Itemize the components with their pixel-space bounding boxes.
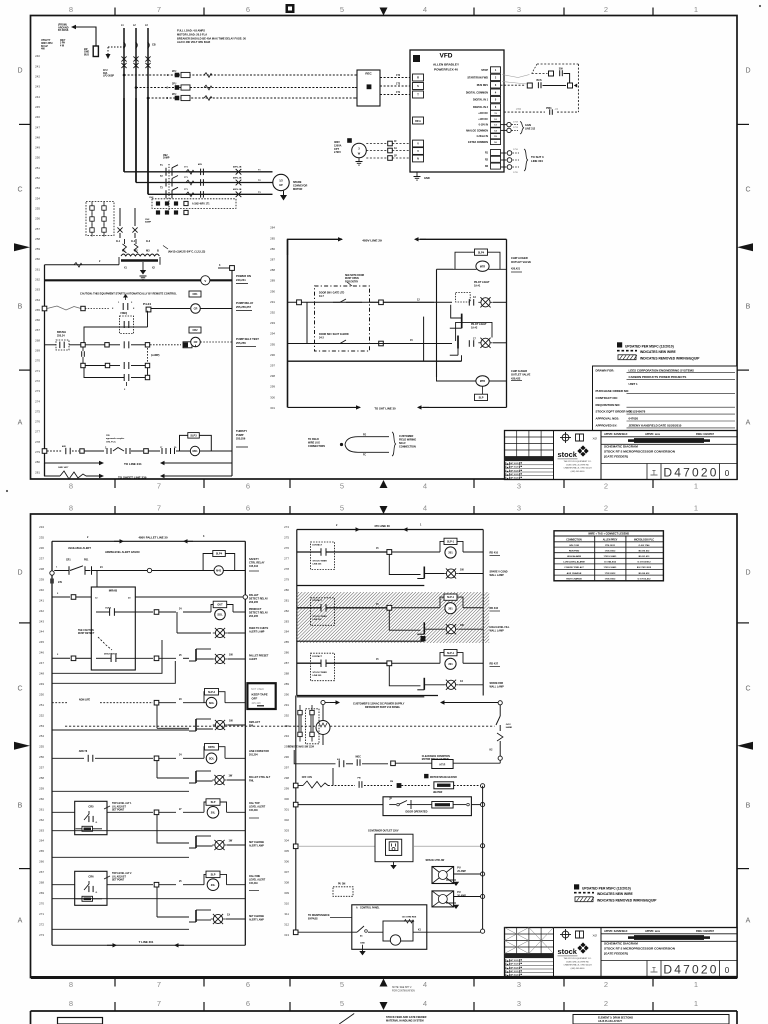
p2 rail node bbox=[50, 571, 54, 575]
svg-text:284: 284 bbox=[270, 226, 275, 230]
svg-text:D: D bbox=[17, 570, 22, 577]
svg-text:269: 269 bbox=[39, 891, 44, 895]
svg-text:THE CAUTION: THE CAUTION bbox=[78, 629, 94, 632]
svg-text:3: 3 bbox=[517, 980, 521, 989]
sump rung dashed bbox=[42, 449, 47, 454]
svg-text:249: 249 bbox=[39, 682, 44, 686]
svg-text:242: 242 bbox=[35, 75, 40, 79]
mid arrow left bbox=[14, 243, 30, 251]
svg-text:MATERIAL HANDLING SYSTEM: MATERIAL HANDLING SYSTEM bbox=[386, 1019, 424, 1022]
svg-text:311: 311 bbox=[284, 912, 289, 916]
svg-text:16490 CHILLICOTHE RD: 16490 CHILLICOTHE RD bbox=[566, 464, 589, 466]
timer dashed box bbox=[311, 542, 335, 570]
svg-text:BR A: BR A bbox=[415, 120, 421, 123]
main rung wire bbox=[297, 607, 321, 609]
HOA contact bbox=[123, 294, 128, 298]
svg-text:250: 250 bbox=[39, 692, 44, 696]
feeder dashed wire 1 bbox=[124, 74, 357, 76]
svg-text:RUN REV: RUN REV bbox=[477, 84, 489, 87]
svg-text:V: V bbox=[204, 279, 206, 283]
terminal pairs dashed box bbox=[306, 709, 320, 744]
svg-text:5: 5 bbox=[340, 504, 344, 513]
svg-text:201: 201 bbox=[448, 607, 453, 611]
svg-text:267: 267 bbox=[39, 870, 44, 874]
svg-text:310: 310 bbox=[284, 901, 289, 905]
svg-text:T: T bbox=[652, 471, 656, 477]
svg-text:253: 253 bbox=[35, 186, 40, 190]
svg-text:480V PALLET LINE 30: 480V PALLET LINE 30 bbox=[138, 536, 167, 540]
svg-text:REQUISITION NO:: REQUISITION NO: bbox=[596, 403, 621, 407]
svg-text:1719: 1719 bbox=[513, 127, 519, 129]
svg-text:294: 294 bbox=[270, 332, 275, 336]
zone marker square top bbox=[286, 4, 295, 13]
svg-text:16490 CHILLICOTHE RD: 16490 CHILLICOTHE RD bbox=[566, 961, 589, 963]
480V line label wire bbox=[288, 239, 343, 255]
rung 612 contact in box bbox=[109, 608, 111, 616]
to line arrows bbox=[45, 462, 104, 464]
svg-text:0: 0 bbox=[725, 966, 730, 975]
quarter ticks right bbox=[737, 622, 749, 624]
svg-text:201: 201 bbox=[448, 551, 453, 555]
svg-text:PUMP SELF TEST: PUMP SELF TEST bbox=[236, 337, 259, 341]
svg-text:2: 2 bbox=[604, 482, 608, 491]
svg-text:240: 240 bbox=[35, 54, 40, 58]
svg-text:268: 268 bbox=[35, 338, 40, 342]
quarter ticks right bbox=[737, 123, 749, 125]
svg-text:246: 246 bbox=[35, 115, 40, 119]
legend removed bbox=[618, 355, 636, 360]
svg-text:OUTLET VALVE: OUTLET VALVE bbox=[511, 373, 531, 377]
revision entries bbox=[505, 954, 554, 959]
svg-text:260: 260 bbox=[35, 257, 40, 261]
svg-text:204,205: 204,205 bbox=[249, 615, 259, 618]
svg-text:275: 275 bbox=[284, 536, 289, 540]
svg-text:B: B bbox=[746, 304, 751, 311]
svg-text:CHAGRIN FALLS, OHIO 44023: CHAGRIN FALLS, OHIO 44023 bbox=[563, 467, 592, 470]
svg-text:M01: M01 bbox=[192, 449, 198, 453]
svg-text:100 OHM RES: 100 OHM RES bbox=[402, 917, 417, 919]
revision entries bbox=[505, 457, 554, 462]
return 730 bbox=[52, 729, 189, 731]
svg-text:301: 301 bbox=[284, 807, 289, 811]
svg-text:1: 1 bbox=[694, 999, 698, 1008]
bottom right rail bbox=[482, 786, 484, 931]
svg-text:ALERT LAMP: ALERT LAMP bbox=[249, 630, 265, 633]
svg-text:CR1: CR1 bbox=[66, 560, 71, 562]
svg-text:254: 254 bbox=[35, 196, 40, 200]
title header row bbox=[600, 431, 602, 480]
svg-text:CR6: CR6 bbox=[88, 875, 94, 879]
svg-text:OUT4: OUT4 bbox=[105, 607, 112, 610]
branch wire bbox=[84, 327, 148, 343]
svg-text:252: 252 bbox=[39, 713, 44, 717]
svg-text:248: 248 bbox=[35, 135, 40, 139]
svg-text:047020: 047020 bbox=[629, 417, 639, 421]
svg-text:LOW LEVEL ALARM: LOW LEVEL ALARM bbox=[563, 561, 584, 564]
svg-text:273: 273 bbox=[35, 389, 40, 393]
sheet bottom center arrow bbox=[380, 979, 388, 987]
svg-text:49FU-1B: 49FU-1B bbox=[233, 166, 242, 169]
svg-text:PB: PB bbox=[390, 781, 393, 783]
svg-text:2FU: 2FU bbox=[172, 83, 177, 85]
svg-text:244: 244 bbox=[39, 630, 44, 634]
svg-text:2: 2 bbox=[604, 999, 608, 1008]
svg-text:FC: FC bbox=[363, 455, 366, 457]
svg-text:AUX CHARGE: AUX CHARGE bbox=[567, 572, 582, 575]
svg-text:ALERT LAMP: ALERT LAMP bbox=[249, 844, 264, 847]
panel switch bbox=[293, 930, 298, 935]
svg-text:SET CHARGE: SET CHARGE bbox=[249, 915, 265, 918]
wire from note bbox=[76, 27, 96, 46]
svg-text:2FU: 2FU bbox=[172, 94, 177, 96]
svg-text:6: 6 bbox=[246, 482, 250, 491]
svg-text:3: 3 bbox=[517, 504, 521, 513]
svg-text:GND: GND bbox=[84, 52, 89, 54]
svg-text:PRODUCT: PRODUCT bbox=[249, 608, 262, 611]
svg-text:257: 257 bbox=[39, 766, 44, 770]
svg-text:HIGH CHARGE: HIGH CHARGE bbox=[566, 577, 582, 580]
svg-text:CH2: CH2 bbox=[149, 197, 154, 199]
svg-text:480Y: 480Y bbox=[60, 39, 66, 42]
svg-text:309: 309 bbox=[284, 891, 289, 895]
svg-text:253: 253 bbox=[39, 724, 44, 728]
svg-text:XØ: XØ bbox=[593, 437, 598, 441]
title block frame bbox=[505, 928, 738, 977]
rung 885 bbox=[52, 884, 75, 886]
svg-text:NON LIFE: NON LIFE bbox=[79, 699, 91, 702]
svg-text:LINE 305: LINE 305 bbox=[313, 675, 323, 677]
svg-text:B3:17013 B12: B3:17013 B12 bbox=[637, 567, 652, 569]
svg-text:295: 295 bbox=[270, 342, 275, 346]
rung 919 lamp bbox=[156, 887, 158, 917]
svg-text:CONNECTORS: CONNECTORS bbox=[308, 445, 325, 448]
control transformer fuses bbox=[124, 239, 126, 244]
svg-text:267: 267 bbox=[35, 328, 40, 332]
svg-text:GOVERNOR OUTLET 120V: GOVERNOR OUTLET 120V bbox=[368, 830, 399, 833]
drawing number row bbox=[601, 463, 737, 465]
svg-text:B3:0/1 413: B3:0/1 413 bbox=[639, 555, 651, 558]
main rung wire bbox=[297, 551, 321, 553]
svg-text:UNIT 1: UNIT 1 bbox=[629, 382, 639, 386]
door box bbox=[383, 797, 471, 816]
lamp2 driver bar bbox=[457, 336, 459, 349]
svg-text:HT R: HT R bbox=[439, 764, 445, 767]
svg-text:A 1M2 49FU 1T1: A 1M2 49FU 1T1 bbox=[192, 203, 210, 206]
svg-text:7: 7 bbox=[157, 504, 161, 513]
svg-text:A: A bbox=[18, 918, 23, 925]
p2 right rail bbox=[244, 541, 246, 945]
relay branch bbox=[444, 538, 457, 544]
svg-text:POWERFLEX 40: POWERFLEX 40 bbox=[434, 68, 458, 72]
rung 597 bbox=[52, 596, 70, 598]
svg-text:CR: CR bbox=[194, 307, 198, 311]
top coil bbox=[476, 261, 489, 271]
svg-text:DIGITAL COMMON: DIGITAL COMMON bbox=[466, 91, 488, 94]
left rail bottom corner bbox=[45, 463, 61, 476]
svg-text:INDICATES NEW WIRE: INDICATES NEW WIRE bbox=[640, 350, 676, 354]
corner dot bbox=[759, 5, 761, 7]
svg-text:303: 303 bbox=[284, 828, 289, 832]
svg-text:313: 313 bbox=[284, 933, 289, 937]
svg-text:305: 305 bbox=[284, 849, 289, 853]
zone ticks top bbox=[114, 506, 116, 514]
svg-text:GND: GND bbox=[360, 943, 365, 945]
svg-text:CAUTION: THIS EQUIPMENT STARTS: CAUTION: THIS EQUIPMENT STARTS AUTOMATIC… bbox=[80, 292, 177, 296]
svg-text:262: 262 bbox=[39, 818, 44, 822]
svg-text:VFD: VFD bbox=[440, 53, 453, 60]
rung 758 bbox=[52, 757, 84, 759]
svg-text:D: D bbox=[745, 68, 750, 75]
svg-text:4W: 4W bbox=[41, 48, 45, 51]
door operated rung bbox=[293, 802, 298, 807]
k2 transformer bbox=[316, 721, 330, 735]
svg-text:SLP4: SLP4 bbox=[478, 251, 485, 254]
svg-text:3: 3 bbox=[517, 482, 521, 491]
svg-text:1T3: 1T3 bbox=[396, 82, 401, 85]
sub return bbox=[297, 696, 425, 698]
svg-text:287: 287 bbox=[284, 661, 289, 665]
svg-text:G: G bbox=[96, 892, 98, 894]
svg-text:B: B bbox=[18, 304, 23, 311]
svg-text:TD12345678: TD12345678 bbox=[629, 410, 646, 414]
outlet coil bbox=[475, 394, 488, 400]
svg-text:HIGH ALARM: HIGH ALARM bbox=[567, 555, 581, 558]
svg-text:RUN FWD: RUN FWD bbox=[569, 550, 580, 552]
svg-text:INDICATES NEW WIRE: INDICATES NEW WIRE bbox=[597, 892, 633, 896]
svg-text:stock: stock bbox=[558, 450, 578, 459]
corner dot 2 bbox=[6, 490, 8, 492]
CPT transformer circle bbox=[352, 143, 367, 158]
svg-text:DWG: 10234567: DWG: 10234567 bbox=[696, 433, 715, 436]
svg-text:1L3: 1L3 bbox=[146, 240, 151, 243]
svg-text:6: 6 bbox=[246, 980, 250, 989]
svg-text:CHIP AUGER: CHIP AUGER bbox=[511, 369, 527, 373]
svg-text:274: 274 bbox=[35, 399, 40, 403]
svg-text:241: 241 bbox=[39, 598, 44, 602]
svg-text:269: 269 bbox=[35, 349, 40, 353]
sheet3 border bbox=[31, 1010, 738, 1012]
revision table bbox=[553, 431, 555, 480]
svg-text:7: 7 bbox=[157, 482, 161, 491]
branch capacitor bbox=[81, 351, 83, 357]
svg-text:SCHEMATIC DIAGRAM: SCHEMATIC DIAGRAM bbox=[604, 942, 638, 946]
svg-text:201: 201 bbox=[448, 662, 453, 666]
svg-text:CR: CR bbox=[194, 340, 198, 344]
svg-text:415,418: 415,418 bbox=[252, 702, 262, 705]
svg-text:SET CHARGE: SET CHARGE bbox=[249, 841, 265, 844]
panel out wire bbox=[413, 931, 480, 933]
battery stub bbox=[51, 575, 53, 578]
svg-text:T: T bbox=[652, 968, 656, 974]
svg-text:WALL LAMP: WALL LAMP bbox=[490, 629, 505, 632]
svg-text:17013-10401: 17013-10401 bbox=[604, 555, 618, 558]
svg-text:292: 292 bbox=[270, 311, 275, 315]
svg-text:BY-PASS: BY-PASS bbox=[58, 29, 69, 32]
svg-text:CR1: CR1 bbox=[192, 293, 198, 296]
svg-text:17B6: 17B6 bbox=[516, 109, 522, 111]
terminal fan diagonals bbox=[502, 75, 518, 78]
svg-text:415,418: 415,418 bbox=[249, 809, 258, 812]
svg-text:256: 256 bbox=[39, 755, 44, 759]
svg-text:NOT USED: NOT USED bbox=[251, 688, 264, 691]
REC to VFD dashed wires bbox=[380, 77, 410, 79]
svg-text:CR5: CR5 bbox=[88, 805, 94, 809]
svg-text:ARD-T8: ARD-T8 bbox=[79, 750, 88, 753]
alarm lamp 2 bbox=[481, 338, 490, 347]
svg-text:297: 297 bbox=[270, 364, 275, 368]
heater label bbox=[424, 774, 428, 778]
tap dashed wire bbox=[108, 46, 124, 48]
svg-text:SLP-2: SLP-2 bbox=[208, 691, 216, 694]
svg-text:255,256,257: 255,256,257 bbox=[236, 305, 251, 309]
svg-text:287: 287 bbox=[270, 258, 275, 262]
zone ticks bottom bbox=[114, 479, 116, 488]
svg-text:JEREMY KANSFIELD DATE 01/20/: JEREMY KANSFIELD DATE 01/20/2010 bbox=[629, 424, 682, 428]
svg-text:[GATE FEEDER]: [GATE FEEDER] bbox=[604, 951, 628, 955]
sheet3 zone ticks bbox=[114, 1002, 116, 1011]
svg-text:C: C bbox=[745, 686, 750, 693]
svg-text:0: 0 bbox=[725, 469, 730, 478]
svg-text:34-7: 34-7 bbox=[319, 295, 324, 298]
svg-text:DRTA: DRTA bbox=[208, 746, 215, 749]
svg-text:243: 243 bbox=[39, 619, 44, 623]
sheet top center arrow bbox=[380, 506, 388, 514]
svg-text:SLP: SLP bbox=[211, 874, 216, 877]
projection symbol bbox=[562, 434, 569, 441]
svg-text:MUST DETECT: MUST DETECT bbox=[78, 633, 95, 635]
svg-text:271: 271 bbox=[35, 369, 40, 373]
panel inner box bbox=[383, 921, 413, 941]
sub return bbox=[297, 585, 425, 587]
svg-text:6: 6 bbox=[246, 999, 250, 1008]
svg-text:APPVD: KANSFIELD: APPVD: KANSFIELD bbox=[604, 433, 628, 436]
svg-text:OUT: OUT bbox=[217, 604, 223, 607]
self test coil bbox=[189, 327, 201, 333]
hatch band bbox=[238, 592, 546, 643]
svg-text:A: A bbox=[18, 420, 23, 427]
svg-text:D47020: D47020 bbox=[663, 466, 718, 480]
power relay coil bbox=[189, 291, 201, 297]
svg-text:MOTOR SPACE HEATER: MOTOR SPACE HEATER bbox=[430, 776, 457, 779]
svg-text:237: 237 bbox=[39, 557, 44, 561]
svg-text:O:17013-412: O:17013-412 bbox=[638, 577, 652, 580]
customer supply line bbox=[321, 700, 325, 704]
svg-text:1W: 1W bbox=[229, 720, 233, 723]
svg-text:277: 277 bbox=[35, 430, 40, 434]
svg-text:304: 304 bbox=[284, 839, 289, 843]
svg-text:1W: 1W bbox=[229, 775, 233, 778]
svg-text:LVL ADJUST: LVL ADJUST bbox=[112, 875, 126, 878]
svg-text:D47020: D47020 bbox=[663, 963, 718, 977]
svg-text:THIRSTY: THIRSTY bbox=[236, 429, 247, 433]
siren top branch bbox=[437, 268, 454, 270]
svg-text:BREAKER SHOULD BE 40A MAX TIME: BREAKER SHOULD BE 40A MAX TIME DELAY FUS… bbox=[177, 36, 246, 40]
svg-text:5AMP: 5AMP bbox=[145, 221, 152, 224]
svg-text:8: 8 bbox=[69, 482, 73, 491]
svg-text:283: 283 bbox=[284, 619, 289, 623]
svg-text:1X: 1X bbox=[460, 680, 463, 683]
wire tag row 2 bbox=[156, 210, 160, 214]
svg-text:264: 264 bbox=[35, 298, 40, 302]
svg-text:1718: 1718 bbox=[513, 121, 519, 123]
main breaker CB1 bbox=[124, 42, 126, 49]
line taps bbox=[123, 74, 126, 77]
PU fuse box 1 bbox=[432, 867, 454, 884]
svg-text:2.5KV: 2.5KV bbox=[334, 151, 341, 154]
svg-text:2AMP: 2AMP bbox=[163, 157, 170, 160]
svg-text:4: 4 bbox=[423, 5, 427, 14]
svg-text:B3:0/0 412: B3:0/0 412 bbox=[639, 549, 651, 552]
svg-text:STOCK RT-2 MICROPROCESSOR C: STOCK RT-2 MICROPROCESSOR CONVERSION bbox=[604, 947, 676, 951]
svg-text:7: 7 bbox=[157, 999, 161, 1008]
svg-text:CONNECTION: CONNECTION bbox=[399, 446, 416, 449]
rung 302 through right box bbox=[288, 301, 453, 303]
svg-text:+24V DC: +24V DC bbox=[478, 112, 488, 115]
svg-text:286: 286 bbox=[284, 651, 289, 655]
sheet3 top center arrow bbox=[380, 1002, 388, 1010]
svg-text:235: 235 bbox=[39, 536, 44, 540]
page2 thick bottom border bbox=[31, 976, 737, 979]
svg-text:236: 236 bbox=[39, 546, 44, 550]
right box bottom rail bbox=[288, 406, 361, 408]
svg-text:PU ON: PU ON bbox=[338, 884, 346, 886]
lamp sub branch bbox=[389, 610, 420, 630]
svg-text:PUMP RELAY: PUMP RELAY bbox=[236, 301, 254, 305]
svg-text:263: 263 bbox=[39, 828, 44, 832]
rung 780 lamp bbox=[156, 761, 158, 779]
svg-text:SLP-1: SLP-1 bbox=[447, 596, 455, 599]
svg-text:1L1: 1L1 bbox=[116, 240, 121, 243]
svg-text:259: 259 bbox=[35, 247, 40, 251]
lamp driver 658 bbox=[195, 649, 197, 661]
p2 left rail bbox=[51, 541, 53, 945]
svg-text:285: 285 bbox=[284, 640, 289, 644]
svg-text:SLP-1: SLP-1 bbox=[447, 541, 455, 544]
svg-text:297: 297 bbox=[284, 766, 289, 770]
svg-text:WIRE + TAG + CONNECT LEGEND: WIRE + TAG + CONNECT LEGEND bbox=[588, 533, 629, 536]
svg-text:CONTACT: CONTACT bbox=[312, 599, 323, 602]
svg-text:ALLEN BRADLEY: ALLEN BRADLEY bbox=[433, 63, 460, 67]
svg-text:B: B bbox=[746, 803, 751, 810]
svg-text:1P: 1P bbox=[394, 156, 397, 158]
svg-text:296: 296 bbox=[284, 755, 289, 759]
svg-text:INDICATES REMOVED WIRING/EQUIP: INDICATES REMOVED WIRING/EQUIP bbox=[640, 356, 700, 360]
svg-text:289: 289 bbox=[284, 682, 289, 686]
svg-text:6: 6 bbox=[246, 5, 250, 14]
rung 830 bbox=[52, 830, 245, 832]
svg-text:OUTLET VALVE: OUTLET VALVE bbox=[511, 260, 531, 264]
VFD brake terminal bbox=[413, 117, 424, 124]
svg-text:SLP: SLP bbox=[211, 801, 216, 804]
svg-text:AS-IS PLAN LAYOUT: AS-IS PLAN LAYOUT bbox=[598, 1020, 622, 1023]
svg-text:CUSTOMER'S 120VAC DC POWER SU: CUSTOMER'S 120VAC DC POWER SUPPLY bbox=[353, 703, 405, 706]
sheet top center arrow bbox=[380, 8, 388, 16]
svg-text:271: 271 bbox=[39, 912, 44, 916]
svg-text:268: 268 bbox=[39, 881, 44, 885]
svg-text:238: 238 bbox=[39, 567, 44, 571]
svg-text:SLP4: SLP4 bbox=[216, 553, 223, 556]
svg-text:415,419: 415,419 bbox=[249, 882, 258, 885]
svg-text:B3:0/0 412: B3:0/0 412 bbox=[639, 572, 651, 575]
svg-text:C: C bbox=[745, 187, 750, 194]
svg-text:O:17013 B12: O:17013 B12 bbox=[637, 562, 651, 564]
legend new wire bbox=[617, 350, 637, 352]
svg-text:CR2: CR2 bbox=[192, 329, 198, 332]
svg-text:5: 5 bbox=[340, 999, 344, 1008]
svg-text:[GATE FEEDER]: [GATE FEEDER] bbox=[604, 454, 628, 458]
svg-text:259: 259 bbox=[39, 787, 44, 791]
svg-text:DOOR OPERATED: DOOR OPERATED bbox=[406, 811, 428, 814]
